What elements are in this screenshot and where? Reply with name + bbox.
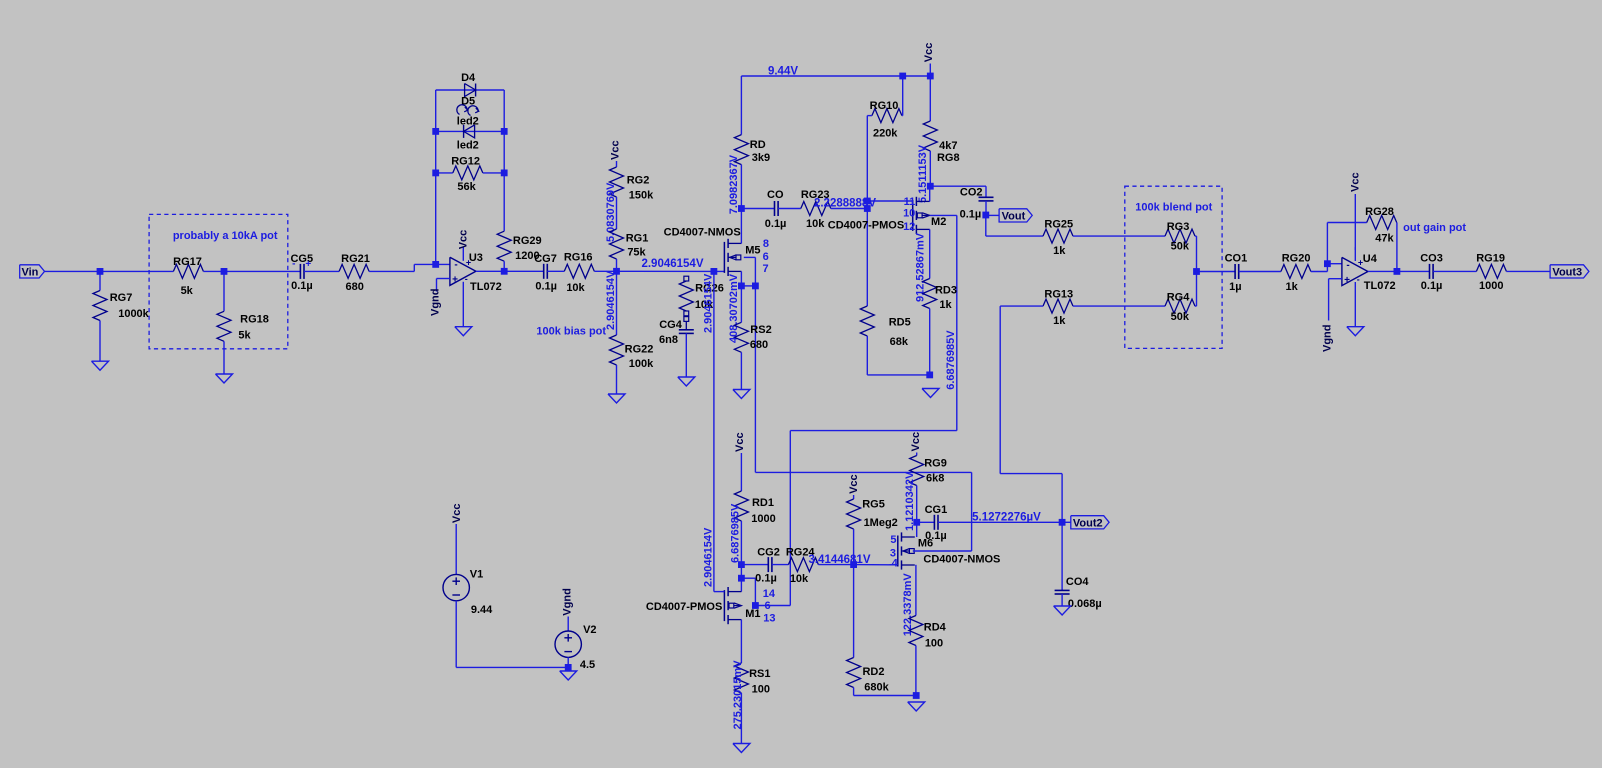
- svg-text:RG22: RG22: [625, 344, 654, 356]
- pin 5 of M6: [890, 534, 896, 546]
- wire RD2 to ground rail: [854, 688, 917, 696]
- wire RG29 to output node: [503, 261, 505, 271]
- wire RG8 top lead: [929, 76, 931, 121]
- svg-text:+: +: [452, 275, 458, 286]
- svg-text:5k: 5k: [181, 285, 194, 297]
- capacitor CG1: [925, 504, 948, 542]
- svg-text:RG29: RG29: [513, 235, 542, 247]
- voltage label 5.1511153V: [917, 144, 929, 203]
- resistor RS1: [734, 663, 770, 696]
- svg-text:13: 13: [763, 613, 775, 625]
- svg-text:5.1272276µV: 5.1272276µV: [972, 511, 1041, 523]
- svg-text:2.9046154V: 2.9046154V: [641, 258, 703, 270]
- wire M2 gate lead: [867, 200, 912, 202]
- pin 3 of M6: [890, 548, 896, 560]
- node U4 inverting: [1324, 260, 1331, 267]
- pin pad RG26 bottom: [684, 311, 689, 316]
- svg-text:10k: 10k: [790, 573, 809, 585]
- svg-text:680: 680: [750, 339, 768, 351]
- svg-text:1Meg2: 1Meg2: [864, 517, 898, 529]
- pin 12 of M2: [903, 221, 915, 233]
- voltage label 912.52867mV: [915, 232, 927, 302]
- svg-text:2.9046154V: 2.9046154V: [703, 273, 715, 333]
- svg-text:Vcc: Vcc: [910, 432, 922, 452]
- wire RG1 to bias node: [616, 259, 618, 271]
- svg-text:4: 4: [892, 558, 899, 570]
- wire D4 branch: [436, 89, 505, 91]
- svg-text:RG4: RG4: [1167, 292, 1191, 304]
- voltage label 9.44V: [768, 66, 798, 78]
- wire bias node down to RG22: [616, 271, 618, 335]
- svg-text:RD5: RD5: [889, 317, 911, 329]
- resistor RG1: [610, 229, 649, 259]
- resistor RG7: [93, 291, 150, 321]
- svg-text:U3: U3: [469, 252, 483, 264]
- resistor RD2: [847, 658, 890, 694]
- svg-text:10k: 10k: [806, 218, 825, 230]
- resistor RG9: [910, 456, 947, 486]
- resistor RG24: [786, 547, 819, 586]
- svg-text:RG19: RG19: [1476, 253, 1505, 265]
- wire M2 source up: [929, 186, 931, 201]
- label led2 for D5: [457, 139, 479, 151]
- wire RD1 top lead: [740, 453, 742, 491]
- wire 9.44V rail: [741, 75, 930, 77]
- pin pad RG26 top: [684, 276, 689, 281]
- svg-text:6k8: 6k8: [926, 473, 944, 485]
- svg-text:RG18: RG18: [240, 314, 269, 326]
- resistor RG21: [339, 253, 370, 293]
- svg-text:-: -: [465, 274, 468, 284]
- svg-text:100: 100: [752, 684, 770, 696]
- svg-text:RD1: RD1: [752, 497, 774, 509]
- transistor M5 CD4007-NMOS: [664, 227, 761, 277]
- wire Vout2 down to CO4: [1061, 522, 1063, 590]
- svg-text:56k: 56k: [457, 181, 476, 193]
- wire RD5 to rail: [866, 336, 868, 375]
- wire RG10 left vertical: [866, 116, 868, 306]
- svg-text:V2: V2: [583, 624, 596, 636]
- svg-text:RS2: RS2: [750, 324, 771, 336]
- svg-text:CD4007-NMOS: CD4007-NMOS: [664, 227, 741, 239]
- svg-text:Vgnd: Vgnd: [430, 289, 442, 317]
- svg-text:RG10: RG10: [870, 100, 899, 112]
- wire feedback right rail: [503, 90, 505, 231]
- wire RG18 to ground: [223, 341, 225, 374]
- voltage label 6.6876985V right: [945, 330, 957, 390]
- op-amp U3: [450, 247, 502, 327]
- svg-text:probably a 10kA pot: probably a 10kA pot: [173, 230, 278, 242]
- voltage label 5.1272276uV: [972, 511, 1041, 523]
- svg-text:RG1: RG1: [626, 232, 649, 244]
- svg-text:M1: M1: [745, 608, 760, 620]
- comment 100k blend pot: [1135, 202, 1212, 214]
- node Vout: [982, 212, 989, 219]
- wire M1 drain down: [740, 620, 742, 663]
- resistor RG2: [610, 167, 655, 201]
- power label Vcc RG9: [910, 432, 922, 452]
- svg-text:Vcc: Vcc: [457, 230, 469, 250]
- wire RD to CO node: [740, 165, 742, 209]
- wire CG2 to RG24: [772, 564, 789, 566]
- svg-text:M5: M5: [745, 244, 760, 256]
- svg-text:out gain pot: out gain pot: [1403, 222, 1466, 234]
- voltage label 2.9046154V lower: [703, 527, 715, 587]
- wire V2 top lead: [567, 617, 569, 632]
- resistor RG5: [847, 498, 898, 529]
- resistor RG17: [173, 256, 203, 297]
- svg-text:1µ: 1µ: [1229, 281, 1241, 293]
- wire RS2 to ground: [740, 352, 742, 389]
- wire Vcc stub RG2: [616, 161, 618, 167]
- wire RG9 to CG1 node: [916, 486, 918, 523]
- svg-text:RG20: RG20: [1282, 253, 1311, 265]
- ground below RG18: [216, 374, 233, 383]
- wire RG28 to output: [1396, 223, 1398, 272]
- node RG12 branch right: [501, 170, 508, 177]
- op-amp U4: [1342, 247, 1396, 327]
- svg-text:CG4: CG4: [659, 319, 683, 331]
- wire M5 drain up: [740, 209, 742, 244]
- svg-text:4.5: 4.5: [580, 659, 595, 671]
- pin 14 of M1: [763, 588, 776, 600]
- svg-text:0.1µ: 0.1µ: [755, 573, 777, 585]
- comment 100k bias pot: [536, 325, 606, 337]
- svg-text:6.6876985V: 6.6876985V: [730, 503, 742, 563]
- svg-text:50k: 50k: [1171, 311, 1190, 323]
- voltage label 5.0830769V: [605, 182, 617, 242]
- svg-text:CO1: CO1: [1225, 253, 1248, 265]
- svg-text:RG3: RG3: [1167, 221, 1190, 233]
- power label Vcc top: [923, 43, 935, 63]
- svg-text:4k7: 4k7: [939, 140, 957, 152]
- svg-text:led2: led2: [457, 116, 479, 128]
- svg-text:14: 14: [763, 588, 776, 600]
- power label Vgnd U4: [1321, 325, 1333, 353]
- svg-text:V1: V1: [470, 569, 483, 581]
- wire M6 drain up: [916, 522, 918, 537]
- resistor RG29: [497, 231, 541, 262]
- dashed box 100k blend pot: [1125, 186, 1222, 348]
- svg-text:11: 11: [904, 196, 916, 208]
- capacitor CG5: [290, 253, 313, 292]
- resistor RG19: [1476, 253, 1506, 292]
- svg-text:CG1: CG1: [925, 504, 948, 516]
- capacitor CO4: [1055, 576, 1102, 610]
- wire CG1 to Vout2: [938, 521, 1062, 523]
- svg-text:Vcc: Vcc: [451, 504, 463, 524]
- ground below V2: [560, 671, 577, 680]
- pin 8 of M5: [763, 238, 769, 250]
- svg-text:CO4: CO4: [1066, 576, 1090, 588]
- net flag Vin: [20, 265, 45, 279]
- wire Vcc stub top: [929, 64, 931, 77]
- node CG2 branch: [738, 561, 745, 568]
- power label Vcc U3: [457, 230, 469, 250]
- wire RD top lead: [740, 76, 742, 135]
- resistor RG12: [451, 156, 483, 194]
- net flag Vout: [999, 209, 1032, 223]
- svg-text:1k: 1k: [1053, 315, 1066, 327]
- wire RG10 right to rail: [901, 76, 904, 116]
- svg-text:U4: U4: [1363, 253, 1378, 265]
- pin 13 of M1: [763, 613, 775, 625]
- svg-text:CO2: CO2: [960, 187, 983, 199]
- wire RD1 to CG2 node: [740, 521, 742, 565]
- svg-text:M2: M2: [931, 216, 946, 228]
- svg-text:0.1µ: 0.1µ: [535, 280, 557, 292]
- capacitor CO1: [1225, 253, 1248, 293]
- ground below RS1: [733, 744, 750, 753]
- power label Vcc U4: [1349, 172, 1361, 192]
- wire CG7 to RG16: [547, 270, 564, 272]
- wire RG16 to bias node: [594, 270, 616, 272]
- voltage label 2.9046154V upper: [703, 273, 715, 333]
- wire RG7 upper lead: [99, 271, 101, 290]
- svg-text:+: +: [1344, 275, 1350, 286]
- resistor RD4: [909, 616, 947, 650]
- svg-text:Vout2: Vout2: [1073, 518, 1103, 530]
- wire M6 gate lead: [854, 564, 898, 566]
- wire Vout down to RG25: [986, 215, 1043, 236]
- svg-text:10: 10: [903, 208, 915, 220]
- wire RG2 to RG1: [616, 197, 618, 229]
- svg-text:1k: 1k: [939, 299, 952, 311]
- svg-text:6: 6: [764, 600, 770, 612]
- wire RG24 to RG5 node: [818, 564, 853, 566]
- wire M6 bulk to rail: [755, 472, 971, 551]
- svg-text:0.1µ: 0.1µ: [291, 280, 313, 292]
- label led2 for D4: [457, 116, 479, 128]
- wire CG2 left lead: [741, 564, 768, 566]
- svg-text:9.44V: 9.44V: [768, 66, 798, 78]
- node RD M5 CO: [738, 205, 745, 212]
- node RG9 CG1 M6: [913, 519, 920, 526]
- wire center to CO1: [1197, 271, 1236, 273]
- svg-text:RG13: RG13: [1044, 289, 1073, 301]
- svg-text:9.44: 9.44: [471, 604, 493, 616]
- svg-text:0.068µ: 0.068µ: [1068, 598, 1102, 610]
- wire M6 source down: [915, 565, 917, 616]
- svg-text:RG12: RG12: [451, 156, 480, 168]
- node U4 output: [1394, 268, 1401, 275]
- capacitor CO: [765, 189, 787, 230]
- svg-text:-: -: [454, 260, 457, 271]
- wire between nodes: [740, 565, 742, 579]
- svg-text:100: 100: [925, 638, 943, 650]
- svg-text:50k: 50k: [1171, 241, 1190, 253]
- comment probably a 10kA pot: [173, 230, 278, 242]
- ground below RG7: [92, 361, 109, 370]
- wire M1 gate lead: [714, 591, 725, 593]
- node RG23 RG10 RD5: [864, 205, 871, 212]
- svg-text:Vgnd: Vgnd: [561, 588, 573, 616]
- wire CO to RG23: [778, 208, 801, 210]
- resistor RD: [734, 135, 770, 165]
- wire RG9 top lead: [916, 453, 918, 456]
- node M5 gate branch: [711, 268, 718, 275]
- svg-text:RD2: RD2: [862, 666, 884, 678]
- svg-text:Vcc: Vcc: [848, 474, 860, 494]
- svg-text:122.3378mV: 122.3378mV: [902, 573, 914, 637]
- wire M5 source to RS2: [740, 286, 742, 322]
- wire CO3 to RG19: [1433, 270, 1476, 272]
- voltage label 1.1210342V: [904, 471, 916, 531]
- voltage source V1: [443, 569, 493, 617]
- svg-text:100k blend pot: 100k blend pot: [1135, 202, 1212, 214]
- node RG8 CO2 M2: [927, 183, 934, 190]
- wire RG8 to M2 source node: [929, 151, 931, 186]
- capacitor CG2: [755, 547, 780, 585]
- ground below RG22: [608, 394, 625, 403]
- svg-text:5.1511153V: 5.1511153V: [917, 144, 929, 203]
- wire CG1 left lead: [917, 521, 935, 523]
- wire U4 output: [1368, 270, 1430, 272]
- wire U4 Vcc pin: [1354, 194, 1356, 250]
- wire RG18 upper lead: [223, 271, 225, 311]
- wire RG20 to U4 inverting: [1311, 264, 1342, 272]
- node at RG18 top: [221, 268, 228, 275]
- voltage label 2.2288888V: [814, 198, 876, 210]
- svg-text:CD4007-NMOS: CD4007-NMOS: [923, 553, 1000, 565]
- wire RG21 to U3 inverting input: [369, 264, 450, 271]
- voltage source V2: [555, 624, 597, 671]
- node M2 gate branch: [864, 198, 871, 205]
- wire RG13 to RG4: [1073, 305, 1165, 307]
- node M5 source: [738, 283, 745, 290]
- svg-text:6.6876985V: 6.6876985V: [945, 330, 957, 390]
- node U3 output: [501, 268, 508, 275]
- svg-text:Vout: Vout: [1002, 211, 1026, 223]
- ground below U4: [1347, 327, 1364, 336]
- wire RG19 to Vout3: [1506, 270, 1550, 272]
- ground below RD4: [908, 702, 925, 711]
- power label Vcc RD1: [734, 432, 746, 452]
- wire RG5 to node: [853, 529, 855, 565]
- wire led2 branch: [436, 130, 505, 132]
- svg-text:Vcc: Vcc: [610, 140, 622, 160]
- svg-text:D4: D4: [461, 72, 476, 84]
- wire M2 drain down: [929, 229, 931, 278]
- svg-text:2.9046154V: 2.9046154V: [605, 270, 617, 330]
- wire RG10 left lead: [867, 115, 872, 117]
- power label Vgnd V2: [561, 588, 573, 616]
- svg-text:Vcc: Vcc: [734, 432, 746, 452]
- net flag Vout3: [1550, 265, 1589, 279]
- svg-text:RG17: RG17: [173, 256, 202, 268]
- dashed box 10kA pot: [149, 214, 288, 348]
- wire V2 bottom: [567, 657, 569, 667]
- wire RD3 to rail node: [929, 309, 931, 375]
- svg-text:8: 8: [763, 238, 769, 250]
- power label Vgnd U3: [430, 289, 442, 317]
- svg-text:150k: 150k: [629, 189, 654, 201]
- svg-text:0.1µ: 0.1µ: [925, 530, 947, 542]
- node led2 branch right: [501, 128, 508, 135]
- svg-text:-: -: [1357, 274, 1360, 284]
- svg-text:3k9: 3k9: [752, 152, 770, 164]
- svg-text:7: 7: [762, 263, 768, 275]
- wire CG4 top lead: [685, 321, 687, 329]
- svg-text:Vin: Vin: [21, 267, 38, 279]
- svg-text:RG8: RG8: [937, 152, 960, 164]
- wire M5 bulk to source: [741, 257, 755, 286]
- svg-text:6: 6: [763, 251, 769, 263]
- svg-text:CO3: CO3: [1420, 253, 1443, 265]
- node M1 source branch: [738, 575, 745, 582]
- wire RS1 to ground: [740, 693, 742, 744]
- wire NMOS bulk rail down: [754, 286, 756, 473]
- voltage label 122.3378mV: [902, 573, 914, 637]
- wire V1 bottom: [456, 601, 568, 668]
- resistor RS2: [734, 322, 771, 352]
- voltage label 3.4144681V: [808, 554, 870, 566]
- resistor RD1: [734, 491, 775, 525]
- svg-text:RG28: RG28: [1365, 206, 1394, 218]
- wire PMOS bulk rail: [755, 215, 956, 605]
- wire M2 bulk to rail: [930, 214, 957, 216]
- capacitor CO3: [1420, 253, 1443, 292]
- wire RG4 to center node: [1195, 272, 1197, 307]
- resistor RG3: [1165, 221, 1195, 252]
- svg-text:100k: 100k: [629, 358, 654, 370]
- svg-text:CO: CO: [767, 189, 784, 201]
- node RG12 branch left: [432, 170, 439, 177]
- svg-text:0.1µ: 0.1µ: [960, 208, 982, 220]
- wire 6.68V rail: [867, 374, 930, 376]
- svg-text:RG2: RG2: [627, 175, 650, 187]
- wire U4 feedback up: [1327, 223, 1366, 264]
- wire RG3 to center node: [1195, 236, 1197, 271]
- voltage label 7.0982367V: [728, 154, 740, 214]
- svg-text:RG5: RG5: [862, 498, 885, 510]
- svg-text:+: +: [305, 259, 311, 270]
- wire CO4 to ground: [1061, 594, 1063, 606]
- node RD3 ground rail: [926, 372, 933, 379]
- svg-text:RG16: RG16: [564, 251, 593, 263]
- wire RG23 to node: [831, 208, 868, 210]
- label D5: [461, 96, 475, 108]
- wire CO2 top lead: [930, 186, 986, 197]
- ground below CO4: [1054, 606, 1071, 615]
- node U3 inverting input: [432, 261, 439, 268]
- ground below U3: [455, 327, 472, 336]
- svg-text:RS1: RS1: [749, 668, 770, 680]
- pin 6 of M1: [764, 600, 770, 612]
- svg-text:CD4007-PMOS: CD4007-PMOS: [828, 219, 904, 231]
- resistor RG18: [217, 311, 269, 341]
- voltage label 2.9046154V main: [641, 258, 703, 270]
- svg-text:RG25: RG25: [1044, 218, 1073, 230]
- svg-text:RG7: RG7: [110, 292, 133, 304]
- node led2 branch left: [432, 128, 439, 135]
- wire feedback left rail: [435, 90, 437, 264]
- svg-text:0.1µ: 0.1µ: [1421, 280, 1443, 292]
- pin 11 of M2: [904, 196, 916, 208]
- svg-text:6n8: 6n8: [659, 334, 678, 346]
- resistor RG22: [610, 335, 655, 370]
- svg-text:5k: 5k: [238, 330, 251, 342]
- pin 10 of M2: [903, 208, 915, 220]
- voltage label 275.23015mV: [732, 660, 744, 730]
- svg-text:RG21: RG21: [341, 253, 370, 265]
- wire bias node to M5 gate: [617, 270, 725, 272]
- svg-text:912.52867mV: 912.52867mV: [915, 232, 927, 302]
- node M1 bulk: [752, 602, 759, 609]
- node blend center: [1193, 268, 1200, 275]
- svg-text:RD4: RD4: [924, 622, 947, 634]
- svg-text:680k: 680k: [864, 682, 889, 694]
